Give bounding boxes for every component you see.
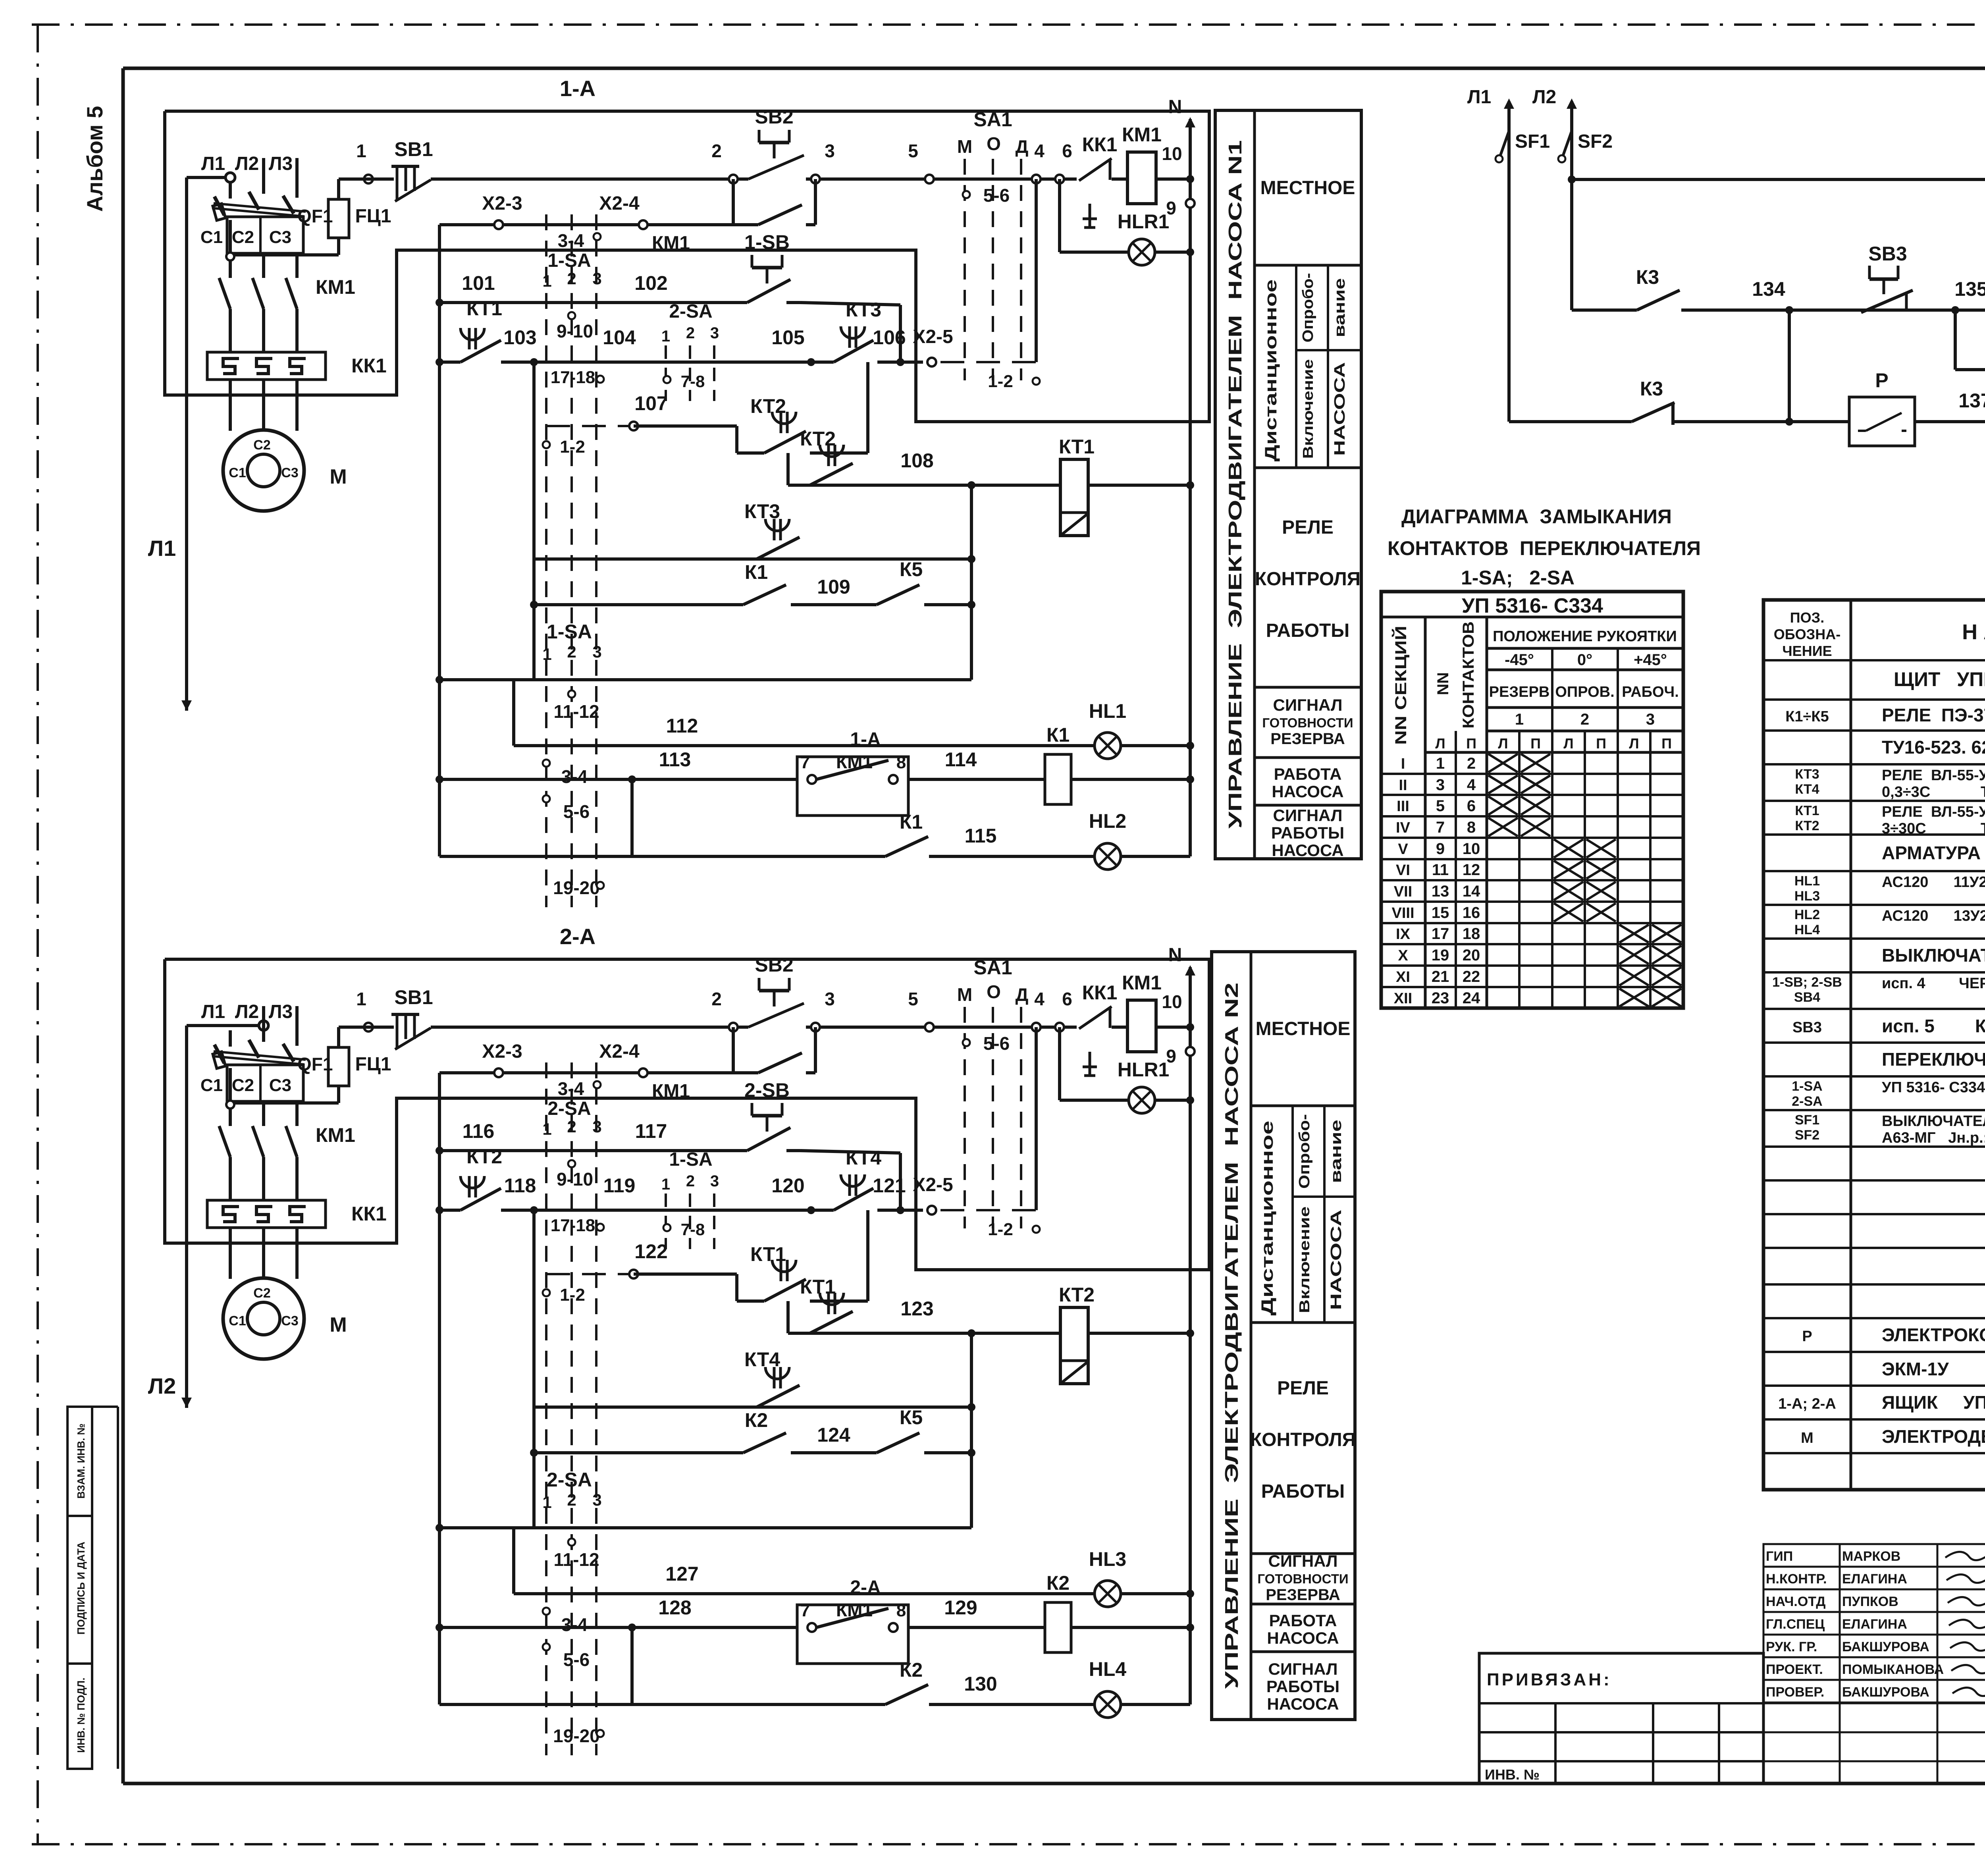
svg-text:УП 5316- С334 ТУ16- 524.07: УП 5316- С334 ТУ16- 524.074-75: [1882, 1079, 1985, 1096]
svg-text:Х2-3: Х2-3: [482, 193, 522, 214]
svg-text:V: V: [1398, 841, 1408, 858]
svg-text:SВ3: SВ3: [1868, 243, 1907, 265]
control-mode table pump N1: [1215, 110, 1361, 859]
svg-text:РУК. ГР.: РУК. ГР.: [1766, 1639, 1817, 1654]
svg-text:FЦ1: FЦ1: [355, 1054, 391, 1075]
svg-text:Л: Л: [1498, 735, 1508, 752]
svg-text:HLR1: HLR1: [1118, 1059, 1170, 1081]
svg-text:А63-МГ Jн.р.: 0,6А ТУ: А63-МГ Jн.р.: 0,6А ТУ16-522 110-74: [1882, 1130, 1985, 1146]
svg-text:КТ2: КТ2: [1059, 1284, 1095, 1306]
svg-text:SВ3: SВ3: [1792, 1019, 1822, 1036]
svg-text:HL4: HL4: [1794, 922, 1820, 937]
svg-text:5-6: 5-6: [563, 801, 590, 822]
SA1 contact 5-6: [963, 191, 970, 198]
svg-text:П: П: [1596, 735, 1606, 752]
svg-text:8: 8: [1467, 819, 1476, 836]
svg-text:124: 124: [817, 1424, 850, 1446]
contacts К2 and К5 row 124: [530, 1449, 538, 1457]
svg-text:7: 7: [800, 1601, 810, 1620]
title block left extension cells: [1763, 1702, 1765, 1783]
cell РАБОТА НАСОСА: [1251, 1650, 1355, 1653]
wire row 113 auxiliary contact box 1-А: [436, 775, 443, 783]
svg-text:9-10: 9-10: [557, 1169, 593, 1190]
wire row 130 lamp HL4: [439, 1703, 885, 1706]
svg-text:SF2: SF2: [1578, 131, 1613, 152]
svg-text:12: 12: [1463, 861, 1480, 879]
svg-text:КМ1: КМ1: [1122, 972, 1162, 994]
node 6: [1055, 1023, 1064, 1032]
node 9: [1186, 1047, 1195, 1056]
node 5: [925, 1023, 934, 1032]
bus N: [1189, 967, 1192, 1704]
svg-text:1-SА: 1-SА: [669, 1149, 712, 1170]
wire 102 drop: [899, 1153, 902, 1209]
svg-text:КК1: КК1: [351, 355, 387, 377]
svg-text:КТ1: КТ1: [466, 297, 502, 320]
node 4: [1032, 175, 1041, 183]
svg-text:РЕЗЕРВА: РЕЗЕРВА: [1270, 730, 1345, 748]
node 4: [1032, 1023, 1041, 1032]
svg-text:вание: вание: [1332, 278, 1348, 337]
svg-text:СИГНАЛ: СИГНАЛ: [1268, 1552, 1338, 1570]
svg-text:HL1: HL1: [1089, 700, 1126, 722]
fuse FU1: [328, 199, 349, 238]
svg-text:ЭЛЕКТРОКОНТАКТНЫЙ МАНОМЕТР: ЭЛЕКТРОКОНТАКТНЫЙ МАНОМЕТР: [1882, 1325, 1985, 1345]
branch K4: [1954, 310, 1957, 370]
svg-text:HL2: HL2: [1089, 810, 1126, 832]
svg-text:1-SА: 1-SА: [547, 621, 592, 643]
svg-text:С3: С3: [269, 228, 291, 247]
wire bottom row 137: [1509, 420, 1985, 423]
svg-text:П: П: [1530, 735, 1541, 752]
time contact КТ1 a: [737, 1300, 764, 1303]
svg-text:7-8: 7-8: [681, 1220, 705, 1239]
selector 1-SА row: [436, 676, 443, 684]
svg-text:3: 3: [592, 642, 601, 661]
node 3: [811, 1023, 820, 1032]
signal lamp HLR1: [1058, 1027, 1061, 1100]
svg-text:Л: Л: [1435, 735, 1445, 752]
cell МЕСТНОЕ: [1251, 1105, 1355, 1107]
svg-text:С1: С1: [200, 228, 223, 247]
svg-text:NN СЕКЦИЙ: NN СЕКЦИЙ: [1391, 626, 1410, 745]
svg-text:КТ2: КТ2: [466, 1145, 502, 1168]
svg-text:X: X: [1398, 947, 1408, 964]
svg-text:ПРИВЯЗАН:: ПРИВЯЗАН:: [1487, 1670, 1612, 1689]
wire row 115 lamp HL2: [439, 855, 885, 858]
svg-text:101: 101: [462, 272, 495, 294]
time contact КТ2 row 118: [436, 1206, 443, 1214]
SA contact 5-6 low: [543, 1643, 550, 1650]
svg-text:БАКШУРОВА: БАКШУРОВА: [1842, 1685, 1929, 1700]
svg-text:КТ3: КТ3: [846, 299, 881, 321]
svg-text:3-4: 3-4: [561, 1614, 588, 1635]
svg-text:ГИП: ГИП: [1766, 1549, 1793, 1564]
svg-text:1: 1: [356, 989, 366, 1009]
thermal overload KK1: [207, 352, 326, 380]
svg-text:ОПРОВ.: ОПРОВ.: [1555, 684, 1614, 700]
wire X2 row: [439, 1071, 733, 1074]
motor M: [223, 1278, 304, 1359]
svg-text:Опробо-: Опробо-: [1296, 1114, 1313, 1189]
SA contact 3-4: [594, 233, 601, 240]
svg-text:Х2-5: Х2-5: [913, 1174, 953, 1195]
svg-text:HL4: HL4: [1089, 1658, 1127, 1680]
svg-text:11-12: 11-12: [553, 1549, 599, 1570]
svg-text:5-6: 5-6: [563, 1649, 590, 1670]
svg-text:С2: С2: [253, 1286, 270, 1301]
terminal X2-3: [494, 1068, 503, 1077]
svg-text:6: 6: [1062, 989, 1072, 1009]
svg-text:N: N: [1168, 96, 1182, 118]
svg-text:108: 108: [900, 449, 933, 472]
svg-text:С2: С2: [253, 438, 270, 453]
svg-text:3: 3: [1436, 776, 1445, 794]
svg-text:РЕЛЕ ВЛ-55-УХЛ4 ~220: РЕЛЕ ВЛ-55-УХЛ4 ~220В: [1882, 804, 1985, 820]
svg-text:МЕСТНОЕ: МЕСТНОЕ: [1256, 1018, 1351, 1039]
svg-text:СИГНАЛ: СИГНАЛ: [1273, 806, 1343, 825]
diagram rows: [1381, 773, 1683, 775]
switch diagram table УП 5316-С334: [1381, 592, 1683, 1008]
svg-text:3-4: 3-4: [561, 766, 588, 787]
svg-text:118: 118: [504, 1174, 536, 1197]
left stamp strip: [67, 1407, 92, 1516]
svg-text:4: 4: [1467, 776, 1476, 794]
node 1: [364, 1023, 373, 1032]
SA contact 11-12: [568, 1539, 575, 1546]
svg-text:ПУПКОВ: ПУПКОВ: [1842, 1594, 1898, 1609]
svg-text:10: 10: [1162, 991, 1182, 1012]
node 6: [1055, 175, 1064, 183]
svg-text:SВ4: SВ4: [1794, 990, 1820, 1005]
svg-text:21: 21: [1432, 968, 1449, 985]
svg-text:1: 1: [356, 141, 366, 161]
svg-text:Х2-5: Х2-5: [913, 326, 953, 347]
time contact КТ2 a: [737, 451, 764, 455]
node 5: [925, 175, 934, 183]
svg-text:SА1: SА1: [973, 956, 1012, 979]
svg-text:HLR1: HLR1: [1118, 210, 1170, 233]
svg-text:19-20: 19-20: [553, 1726, 600, 1746]
wire row 123 relay coil КТ2: [788, 1332, 1190, 1335]
svg-text:2-SА: 2-SА: [547, 1469, 592, 1491]
stop button SB3: [1846, 308, 1861, 312]
svg-text:НАСОСА: НАСОСА: [1272, 841, 1343, 860]
terminal X2-3: [494, 220, 503, 229]
svg-text:ПОМЫКАНОВА: ПОМЫКАНОВА: [1842, 1662, 1944, 1677]
svg-text:Дистанционное: Дистанционное: [1258, 1121, 1276, 1316]
svg-text:Р: Р: [1802, 1328, 1812, 1345]
contactor coil KM1: [1127, 1000, 1156, 1052]
svg-text:КК1: КК1: [1082, 981, 1118, 1004]
svg-text:SВ1: SВ1: [394, 986, 433, 1008]
svg-text:Д: Д: [1016, 984, 1029, 1005]
pressure gauge P: [1849, 397, 1915, 446]
svg-text:РЕЛЕ: РЕЛЕ: [1282, 517, 1334, 538]
svg-text:КОНТРОЛЯ: КОНТРОЛЯ: [1250, 1429, 1356, 1450]
cell remote start: [1255, 467, 1361, 469]
svg-text:123: 123: [900, 1298, 933, 1320]
svg-text:VI: VI: [1396, 862, 1410, 879]
svg-text:С1: С1: [200, 1076, 223, 1095]
svg-text:РАБОТЫ: РАБОТЫ: [1266, 620, 1350, 641]
svg-text:SB2: SB2: [755, 106, 793, 128]
svg-text:2-SА: 2-SА: [547, 1098, 591, 1119]
svg-text:HL3: HL3: [1089, 1548, 1126, 1570]
wire row 122: [546, 1273, 634, 1275]
SA contact 11-12: [568, 690, 575, 698]
svg-text:9-10: 9-10: [557, 321, 593, 341]
svg-text:23: 23: [1432, 989, 1449, 1007]
svg-text:ЭЛЕКТРОДВИГАТЕЛЬ: ЭЛЕКТРОДВИГАТЕЛЬ: [1882, 1426, 1985, 1447]
wire row 101: [436, 299, 443, 307]
svg-text:1: 1: [1436, 755, 1445, 772]
svg-text:SА1: SА1: [973, 108, 1012, 131]
svg-text:Л1: Л1: [148, 536, 176, 561]
cell РЕЛЕ КОНТРОЛЯ РАБОТЫ: [1255, 686, 1361, 689]
svg-text:116: 116: [463, 1120, 495, 1142]
svg-text:15: 15: [1432, 904, 1449, 922]
svg-text:К1: К1: [1046, 724, 1070, 746]
svg-text:VIII: VIII: [1391, 905, 1414, 922]
svg-text:2-SА: 2-SА: [1792, 1094, 1822, 1109]
svg-text:2-SА: 2-SА: [669, 301, 712, 322]
border inner solid frame: [123, 67, 1985, 70]
wire row 107: [546, 425, 634, 427]
svg-text:Включение: Включение: [1296, 1207, 1312, 1313]
svg-text:КТ2: КТ2: [800, 428, 836, 450]
svg-text:АС120 13У2: АС120 13У2: [1882, 908, 1985, 924]
node 2: [729, 175, 738, 183]
svg-text:10: 10: [1463, 840, 1480, 858]
svg-text:ПОЗ.: ПОЗ.: [1790, 609, 1824, 626]
svg-text:исп. 4 ЧЕРНЫЙ „П: исп. 4 ЧЕРНЫЙ „ПУСК“: [1882, 974, 1985, 992]
svg-text:ГЛ.СПЕЦ: ГЛ.СПЕЦ: [1766, 1617, 1825, 1632]
svg-text:HL3: HL3: [1794, 889, 1820, 904]
svg-text:1: 1: [661, 1176, 670, 1193]
svg-text:XII: XII: [1394, 990, 1412, 1007]
svg-text:С1: С1: [229, 465, 246, 480]
svg-text:1: 1: [661, 328, 670, 345]
svg-text:О: О: [987, 133, 1001, 154]
svg-text:ТУ16-523. 622-82: ТУ16-523. 622-82: [1882, 737, 1985, 758]
svg-text:109: 109: [817, 576, 850, 598]
contactor KM1 main contacts: [219, 1126, 230, 1157]
svg-text:13: 13: [1432, 883, 1449, 900]
svg-text:1: 1: [1515, 711, 1524, 728]
svg-text:+45°: +45°: [1634, 651, 1667, 669]
svg-text:Л3: Л3: [269, 1001, 293, 1022]
selector 2-SА row: [436, 1524, 443, 1532]
svg-text:2: 2: [711, 989, 722, 1009]
svg-text:КТ2: КТ2: [750, 395, 786, 417]
svg-text:П: П: [1661, 735, 1672, 752]
svg-text:VII: VII: [1394, 883, 1412, 900]
svg-text:РАБОЧ.: РАБОЧ.: [1622, 684, 1679, 700]
svg-text:1-SА: 1-SА: [1792, 1079, 1822, 1094]
svg-text:РЕЗЕРВ: РЕЗЕРВ: [1489, 684, 1550, 700]
svg-text:Н А И М Е Н О В А Н И Е: Н А И М Е Н О В А Н И Е: [1962, 620, 1985, 644]
svg-text:11: 11: [1432, 861, 1449, 879]
svg-text:С2: С2: [232, 228, 254, 247]
SA1 contact 5-6: [963, 1039, 970, 1046]
svg-text:1-А: 1-А: [560, 76, 595, 101]
svg-text:18: 18: [1463, 925, 1480, 943]
wire C1 tap to fuse: [230, 253, 339, 256]
svg-text:-45°: -45°: [1505, 651, 1534, 669]
svg-text:SB2: SB2: [755, 954, 793, 976]
svg-text:КТ3: КТ3: [1795, 767, 1819, 782]
svg-text:КТ1: КТ1: [1795, 803, 1819, 818]
components table: [1763, 600, 1985, 1490]
relay coil К1: [1045, 754, 1071, 804]
svg-text:Л: Л: [1563, 735, 1573, 752]
svg-text:122: 122: [634, 1240, 667, 1263]
svg-text:119: 119: [603, 1174, 636, 1197]
svg-text:Л1: Л1: [201, 153, 225, 174]
svg-text:ЕЛАГИНА: ЕЛАГИНА: [1842, 1617, 1907, 1632]
wire row 128 auxiliary contact box 2-А: [436, 1623, 443, 1631]
svg-text:121: 121: [873, 1174, 906, 1197]
svg-text:Опробо-: Опробо-: [1300, 273, 1316, 343]
svg-text:1-SА: 1-SА: [547, 250, 591, 271]
vertical 103 to 1-SA: [532, 1210, 536, 1528]
svg-text:КТ1: КТ1: [750, 1243, 786, 1265]
svg-text:РЕЗЕРВА: РЕЗЕРВА: [1266, 1586, 1340, 1604]
motor M: [223, 430, 304, 511]
svg-text:5: 5: [908, 989, 918, 1009]
pushbutton SB1: [393, 1025, 430, 1029]
svg-text:22: 22: [1463, 968, 1480, 985]
wire row 116: [436, 1147, 443, 1155]
svg-text:К3: К3: [1640, 378, 1663, 400]
svg-text:8: 8: [896, 1601, 906, 1620]
svg-text:106: 106: [873, 326, 906, 349]
time contact КТ3 row: [534, 557, 971, 561]
contactor self-hold contact KM1: [733, 223, 758, 226]
fuse FU1: [328, 1047, 349, 1086]
svg-text:HL2: HL2: [1794, 907, 1820, 922]
svg-text:1: 1: [542, 1493, 551, 1512]
svg-text:О: О: [987, 981, 1001, 1002]
svg-text:17-18: 17-18: [551, 368, 595, 387]
svg-text:ГОТОВНОСТИ: ГОТОВНОСТИ: [1257, 1571, 1348, 1586]
SA contact 3-4 low: [543, 1608, 550, 1615]
svg-text:Л2: Л2: [1532, 87, 1556, 108]
svg-text:КТ1: КТ1: [800, 1276, 836, 1298]
wire K3 coil row: [1568, 175, 1576, 183]
cell МЕСТНОЕ: [1255, 264, 1361, 267]
svg-text:104: 104: [603, 326, 636, 349]
svg-text:КТ4: КТ4: [1795, 782, 1819, 797]
cell РЕЛЕ КОНТРОЛЯ РАБОТЫ: [1251, 1552, 1355, 1555]
left bus: [438, 1073, 441, 1704]
svg-text:5-6: 5-6: [983, 1033, 1010, 1054]
svg-text:КМ1: КМ1: [316, 1124, 355, 1146]
time contact КТ3: [811, 361, 834, 364]
contact K3 nc: [1628, 420, 1687, 424]
svg-text:Дистанционное: Дистанционное: [1261, 280, 1280, 462]
svg-text:N: N: [1168, 945, 1182, 966]
svg-text:К1÷К5: К1÷К5: [1785, 708, 1829, 725]
contacts К1 and К5 row 109: [530, 601, 538, 609]
svg-text:III: III: [1397, 798, 1409, 815]
svg-text:УП 5316- С334: УП 5316- С334: [1462, 594, 1603, 617]
border outer dash-dot frame: [32, 23, 1985, 26]
svg-text:6: 6: [1062, 141, 1072, 161]
svg-text:3: 3: [710, 1172, 719, 1190]
svg-text:АС120 11У2: АС120 11У2: [1882, 874, 1985, 891]
svg-text:ПРОВЕР.: ПРОВЕР.: [1766, 1685, 1824, 1700]
svg-text:РЕЛЕ ВЛ-55-УХЛ4 ~220: РЕЛЕ ВЛ-55-УХЛ4 ~220В: [1882, 767, 1985, 784]
svg-text:Л1: Л1: [201, 1001, 225, 1022]
svg-text:КМ1: КМ1: [316, 276, 355, 298]
svg-text:10: 10: [1162, 143, 1182, 164]
relay coil К2: [1045, 1602, 1071, 1652]
wire 102 drop: [899, 305, 902, 361]
svg-text:ПОЛОЖЕНИЕ РУКОЯТКИ: ПОЛОЖЕНИЕ РУКОЯТКИ: [1493, 628, 1677, 645]
svg-text:РАБОТА: РАБОТА: [1274, 765, 1342, 783]
svg-text:РЕЛЕ ПЭ-37-22У3 ~220В: РЕЛЕ ПЭ-37-22У3 ~220В: [1882, 705, 1985, 725]
svg-text:3: 3: [592, 1490, 601, 1509]
svg-text:117: 117: [635, 1120, 667, 1142]
time contact КТ4: [811, 1209, 834, 1212]
pushbutton SB2: [738, 1026, 748, 1029]
svg-text:5-6: 5-6: [983, 185, 1010, 206]
svg-text:2: 2: [686, 1172, 695, 1190]
node 3: [811, 175, 820, 183]
svg-text:Л1: Л1: [1467, 87, 1491, 108]
wire row 108 relay coil КТ1: [788, 484, 1190, 487]
svg-text:2: 2: [686, 324, 695, 342]
svg-text:5: 5: [908, 141, 918, 161]
svg-text:УПРАВЛЕНИЕ ЭЛЕКТРОДВИГАТЕЛЕМ: УПРАВЛЕНИЕ ЭЛЕКТРОДВИГАТЕЛЕМ НАСОСА N2: [1221, 983, 1242, 1689]
SA contact 3-4 low: [543, 760, 550, 767]
header ПОЛОЖЕНИЕ РУКОЯТКИ: [1487, 647, 1683, 650]
left bus: [438, 225, 441, 856]
svg-text:ЯЩИК УПРАВЛЕНИЯ: ЯЩИК УПРАВЛЕНИЯ: [1882, 1392, 1985, 1413]
svg-text:ВЗАМ. ИНВ. №: ВЗАМ. ИНВ. №: [75, 1423, 87, 1498]
svg-text:2-SВ: 2-SВ: [744, 1079, 790, 1101]
svg-text:XI: XI: [1396, 969, 1410, 985]
svg-text:2: 2: [567, 1490, 576, 1509]
svg-text:107: 107: [634, 392, 667, 415]
svg-text:УПРАВЛЕНИЕ ЭЛЕКТРОДВИГАТЕЛЕМ: УПРАВЛЕНИЕ ЭЛЕКТРОДВИГАТЕЛЕМ НАСОСА N1: [1225, 140, 1245, 829]
svg-text:FЦ1: FЦ1: [355, 206, 391, 227]
svg-text:0°: 0°: [1577, 651, 1592, 669]
svg-text:СИГНАЛ: СИГНАЛ: [1273, 696, 1343, 714]
line L1 feeder: [187, 176, 230, 179]
svg-text:Х2-4: Х2-4: [599, 193, 640, 214]
wire row 112 lamp HL1: [512, 680, 515, 746]
svg-text:129: 129: [944, 1596, 977, 1619]
SA1 contact 9-10: [568, 1160, 575, 1167]
svg-text:IV: IV: [1396, 819, 1411, 836]
svg-text:МЕСТНОЕ: МЕСТНОЕ: [1260, 177, 1355, 199]
svg-text:3÷30С ТУ16-523. 62: 3÷30С ТУ16-523. 624-83: [1882, 820, 1985, 837]
privyazan block: [1479, 1653, 1763, 1783]
svg-text:РАБОТЫ: РАБОТЫ: [1261, 1481, 1345, 1502]
svg-text:Л2: Л2: [148, 1373, 176, 1398]
cell СИГНАЛ ГОТОВНОСТИ РЕЗЕРВА: [1255, 756, 1361, 759]
svg-text:24: 24: [1463, 989, 1480, 1007]
signal lamp HLR1: [1058, 179, 1061, 252]
svg-text:МАРКОВ: МАРКОВ: [1842, 1549, 1900, 1564]
contactor KM1 main contacts: [219, 278, 230, 309]
svg-text:14: 14: [1463, 883, 1480, 900]
svg-text:Д: Д: [1016, 136, 1029, 157]
svg-text:1: 1: [542, 645, 551, 663]
